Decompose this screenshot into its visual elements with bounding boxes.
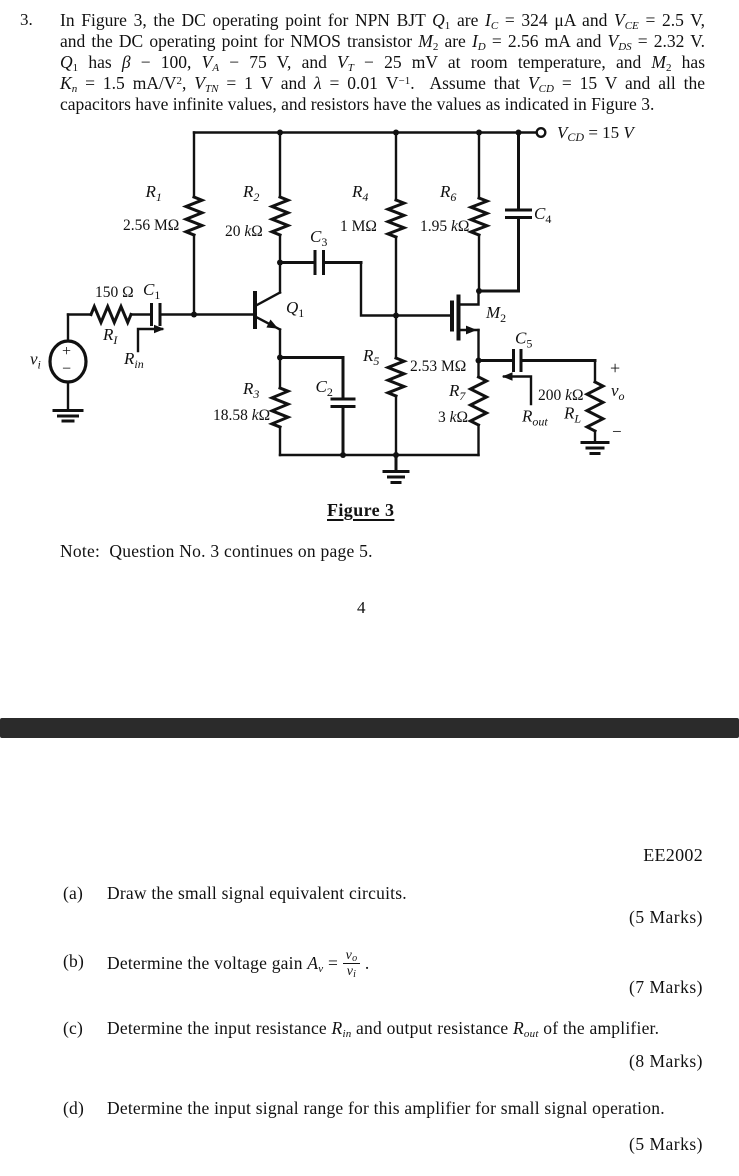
wire input line [68, 313, 255, 315]
wire RL column [594, 361, 596, 443]
value 1.95 kOhm [420, 218, 469, 235]
svg-text:Rout: Rout [521, 407, 548, 429]
svg-text:VCD = 15 V: VCD = 15 V [557, 123, 636, 144]
value 3 kOhm [438, 409, 468, 426]
label R2 [242, 182, 259, 204]
label + source [62, 343, 71, 360]
label minus source [62, 361, 71, 378]
node collector-R2-C3 junction [277, 260, 283, 266]
note line [60, 541, 373, 562]
figure caption [327, 500, 394, 521]
label R6 [439, 182, 456, 204]
svg-text:R3: R3 [242, 379, 259, 401]
value 18.58 kOhm [213, 407, 270, 424]
node rail-C4 junction [516, 130, 522, 136]
ground RL [582, 443, 608, 454]
wire C3 to gate [361, 263, 452, 316]
label Rin [123, 349, 144, 371]
capacitor C1 [152, 305, 161, 325]
svg-text:RL: RL [563, 404, 581, 426]
label RL [563, 404, 581, 426]
label VCD = 15 V [557, 123, 636, 144]
wire R5 column [395, 316, 397, 456]
ground main [384, 455, 408, 483]
wire top supply rail [194, 131, 537, 133]
label Q1 [286, 298, 304, 320]
label C5 [515, 329, 532, 351]
label C4 [534, 204, 551, 226]
capacitor C2 [280, 358, 354, 456]
course code [503, 845, 703, 866]
svg-text:20 kΩ: 20 kΩ [225, 223, 263, 240]
label R1 [145, 182, 162, 204]
wire R2 column [279, 133, 281, 263]
svg-text:C3: C3 [310, 227, 327, 249]
svg-text:150 Ω: 150 Ω [95, 284, 134, 301]
resistor R7 [471, 377, 487, 425]
svg-text:C5: C5 [515, 329, 532, 351]
node rail-R2 junction [277, 130, 283, 136]
page number [357, 598, 366, 618]
svg-text:3 kΩ: 3 kΩ [438, 409, 468, 426]
svg-text:R2: R2 [242, 182, 259, 204]
label RI [102, 325, 118, 347]
svg-text:Rin: Rin [123, 349, 144, 371]
transistor Q1 [255, 263, 280, 358]
svg-text:2.53 MΩ: 2.53 MΩ [410, 358, 466, 375]
svg-text:R4: R4 [351, 182, 368, 204]
svg-text:1.95 kΩ: 1.95 kΩ [420, 218, 469, 235]
node base-R1 junction [191, 312, 197, 318]
svg-text:Q1: Q1 [286, 298, 304, 320]
resistor R6 [471, 198, 487, 235]
value 20 kOhm [225, 223, 263, 240]
node R4-R5-gate junction [393, 313, 399, 319]
node bottom-R5-ground junction [393, 452, 399, 458]
value 150 Ohm [95, 284, 134, 301]
svg-text:−: − [62, 361, 71, 378]
svg-text:R5: R5 [362, 346, 379, 368]
node rail-R4 junction [393, 130, 399, 136]
node rail-R6 junction [476, 130, 482, 136]
svg-text:vi: vi [30, 350, 41, 372]
capacitor C3 [280, 252, 361, 274]
wire R6 column [478, 133, 480, 292]
transistor M2 [452, 291, 479, 361]
resistor R1 [186, 197, 202, 235]
resistor RL [587, 382, 603, 431]
value 200 kOhm [538, 387, 584, 404]
label C1 [143, 280, 160, 302]
svg-text:R1: R1 [145, 182, 162, 204]
item (c) [63, 1018, 83, 1039]
paragraph [60, 10, 705, 115]
svg-text:2.56 MΩ: 2.56 MΩ [123, 217, 179, 234]
svg-text:vo: vo [611, 381, 625, 403]
svg-text:R7: R7 [448, 381, 466, 403]
capacitor C5 [479, 351, 596, 371]
resistor R4 [388, 200, 404, 237]
arrow Rout indicator [502, 372, 531, 404]
svg-text:1 MΩ: 1 MΩ [340, 218, 377, 235]
svg-text:+: + [62, 343, 71, 360]
label R4 [351, 182, 368, 204]
svg-text:200 kΩ: 200 kΩ [538, 387, 584, 404]
label minus output [612, 422, 622, 441]
capacitor C4 [479, 133, 531, 292]
resistor R3 [272, 388, 288, 427]
label C2 [316, 377, 333, 399]
node emitter-R3-C2 junction [277, 355, 283, 361]
svg-text:RI: RI [102, 325, 118, 347]
resistor R2 [272, 197, 288, 235]
svg-text:C4: C4 [534, 204, 551, 226]
wire R3 column [279, 358, 281, 456]
VCD supply terminal [537, 128, 546, 137]
label R5 [362, 346, 379, 368]
ground vi [54, 411, 82, 422]
label C3 [310, 227, 327, 249]
source vi [50, 315, 86, 410]
wire R4 column [395, 133, 397, 316]
svg-text:C1: C1 [143, 280, 160, 302]
svg-text:−: − [612, 422, 622, 441]
item (a) [63, 883, 83, 904]
label vo [611, 381, 625, 403]
svg-text:18.58 kΩ: 18.58 kΩ [213, 407, 270, 424]
item (d) [63, 1098, 84, 1119]
label vi [30, 350, 41, 372]
svg-text:R6: R6 [439, 182, 456, 204]
resistor RI [91, 307, 131, 323]
label Rout [521, 407, 548, 429]
item (b) [63, 951, 84, 972]
resistor R5 [388, 358, 404, 396]
value 2.53 MOhm [410, 358, 466, 375]
page separator band [0, 718, 739, 738]
arrow Rin indicator [138, 325, 165, 351]
node source-C5-R7 junction [476, 358, 482, 364]
svg-text:C2: C2 [316, 377, 333, 399]
svg-text:+: + [610, 358, 620, 378]
value 2.56 MOhm [123, 217, 179, 234]
svg-text:M2: M2 [485, 303, 506, 325]
value 1 MOhm [340, 218, 377, 235]
label R3 [242, 379, 259, 401]
label R7 [448, 381, 466, 403]
question number [20, 10, 33, 30]
label + output [610, 358, 620, 378]
wire R7 column [477, 361, 479, 456]
wire R1 column [193, 133, 195, 315]
node drain-R6-C4 junction [476, 288, 482, 294]
label M2 [485, 303, 506, 325]
wire bottom rail [280, 454, 479, 456]
node bottom-C2 junction [340, 452, 346, 458]
